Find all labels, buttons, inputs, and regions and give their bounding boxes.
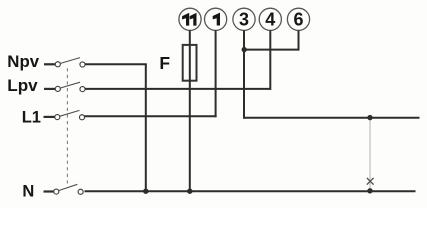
wire terminal 1 vertical	[215, 30, 217, 117]
svg-text:4: 4	[265, 9, 275, 29]
terminal circle 4	[259, 8, 281, 30]
wire N bus horizontal	[85, 190, 416, 192]
junction node Npv on N bus	[143, 189, 148, 194]
wire fuse to N bus	[189, 46, 191, 191]
terminal circle 6	[287, 8, 309, 30]
svg-text:L1: L1	[22, 108, 41, 126]
removable link wire (thin)	[369, 118, 371, 191]
svg-text:N: N	[22, 183, 34, 201]
wire terminal 4 vertical	[269, 30, 271, 90]
junction node link top	[367, 115, 372, 120]
switch S1 pole Lpv	[44, 82, 85, 91]
switch S1 pole N	[44, 184, 84, 194]
wire terminal 3 vertical	[243, 30, 245, 118]
switch S1 pole Npv	[44, 58, 85, 67]
wire L1 horizontal	[85, 115, 217, 117]
X break mark on link	[367, 178, 374, 185]
wire terminal 11 into fuse	[189, 30, 191, 46]
wire terminal 3 net horizontal	[244, 117, 420, 119]
junction node link bottom	[367, 188, 372, 193]
terminal circle 11	[179, 8, 201, 30]
wire link terminals 3-6	[244, 30, 299, 49]
terminal circle 3	[233, 8, 255, 30]
svg-text:6: 6	[293, 9, 303, 29]
switch gang link (dashed)	[66, 68, 68, 183]
svg-text:F: F	[159, 53, 170, 73]
svg-text:Lpv: Lpv	[7, 77, 38, 95]
junction node fuse wire on N bus	[187, 189, 192, 194]
fuse F body	[183, 45, 197, 81]
wire Npv down to N bus	[145, 64, 147, 191]
svg-text:Npv: Npv	[7, 53, 40, 71]
junction node terminals 3-6	[242, 47, 247, 52]
wire Npv horizontal	[85, 63, 147, 65]
svg-text:3: 3	[239, 9, 249, 29]
wire Lpv horizontal	[85, 88, 270, 90]
switch S1 pole L1	[44, 110, 85, 119]
terminal circle 1	[205, 8, 227, 30]
